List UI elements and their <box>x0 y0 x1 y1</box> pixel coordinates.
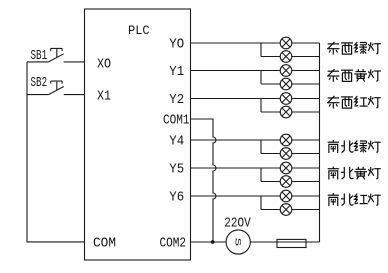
svg-text:Y1: Y1 <box>169 65 184 80</box>
svg-text:22OV: 22OV <box>224 217 251 232</box>
svg-text:COM2: COM2 <box>160 237 187 252</box>
svg-text:S: S <box>232 238 241 247</box>
svg-text:Y2: Y2 <box>169 93 184 108</box>
svg-text:COM1: COM1 <box>163 114 190 129</box>
svg-text:Y6: Y6 <box>169 191 184 206</box>
svg-text:X1: X1 <box>97 90 111 105</box>
svg-text:SB2: SB2 <box>31 76 48 91</box>
svg-text:XO: XO <box>97 57 111 72</box>
svg-text:PLC: PLC <box>128 23 150 38</box>
svg-text:COM: COM <box>93 237 116 252</box>
svg-text:Y5: Y5 <box>169 163 184 178</box>
svg-text:YO: YO <box>169 38 184 53</box>
svg-text:SB1: SB1 <box>31 49 48 64</box>
svg-text:Y4: Y4 <box>169 135 184 150</box>
